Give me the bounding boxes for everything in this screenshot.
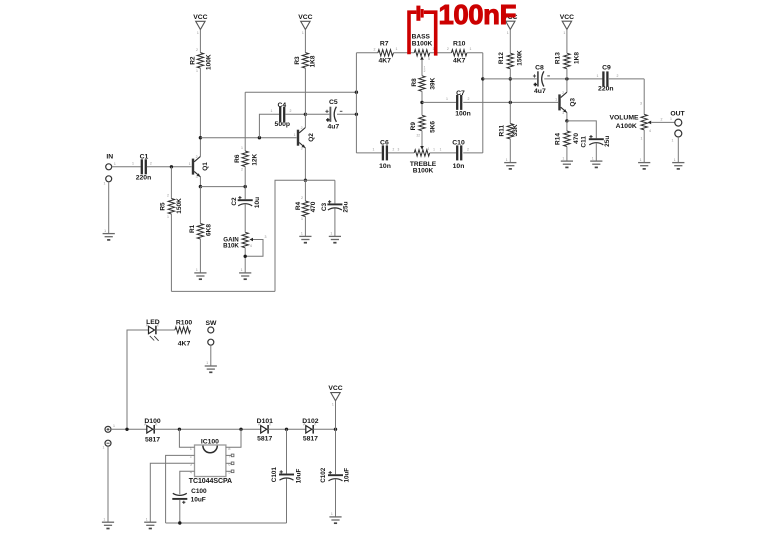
svg-text:2: 2: [447, 47, 449, 51]
svg-text:R2: R2: [189, 56, 196, 65]
svg-text:VCC: VCC: [193, 14, 207, 21]
svg-text:VOLUME: VOLUME: [609, 115, 639, 122]
svg-text:3: 3: [562, 111, 564, 115]
svg-text:4K7: 4K7: [378, 57, 391, 64]
svg-text:25u: 25u: [343, 201, 350, 212]
svg-text:C7: C7: [456, 90, 465, 97]
svg-text:1: 1: [641, 137, 643, 141]
svg-text:5K6: 5K6: [430, 121, 437, 133]
svg-text:220n: 220n: [598, 85, 614, 92]
svg-text:1: 1: [114, 162, 116, 166]
svg-text:C5: C5: [329, 99, 338, 106]
svg-text:4: 4: [250, 244, 252, 248]
svg-text:3: 3: [398, 147, 400, 151]
svg-text:R100: R100: [176, 319, 192, 326]
svg-text:2: 2: [661, 118, 663, 122]
svg-text:3: 3: [301, 146, 303, 150]
svg-text:100n: 100n: [455, 110, 471, 117]
svg-text:1: 1: [206, 361, 208, 365]
svg-text:10n: 10n: [379, 163, 391, 170]
svg-text:33K: 33K: [512, 124, 519, 136]
svg-text:150K: 150K: [176, 198, 183, 214]
svg-text:SW: SW: [206, 320, 218, 327]
svg-text:B10K: B10K: [223, 243, 239, 250]
svg-text:1: 1: [241, 146, 243, 150]
svg-text:3: 3: [265, 235, 267, 239]
svg-text:220n: 220n: [136, 174, 152, 181]
svg-text:1: 1: [433, 147, 435, 151]
svg-text:100K: 100K: [206, 54, 213, 70]
svg-text:1: 1: [294, 133, 296, 137]
svg-text:2: 2: [393, 147, 395, 151]
svg-text:C4: C4: [277, 102, 286, 109]
svg-text:1: 1: [104, 229, 106, 233]
svg-text:LED: LED: [146, 319, 160, 326]
svg-text:1: 1: [146, 517, 148, 521]
svg-text:2: 2: [374, 48, 376, 52]
svg-text:1: 1: [555, 98, 557, 102]
svg-text:2: 2: [290, 109, 292, 113]
svg-text:1: 1: [103, 446, 105, 450]
svg-text:1: 1: [189, 162, 191, 166]
svg-text:VCC: VCC: [328, 385, 342, 392]
svg-text:2: 2: [241, 168, 243, 172]
svg-text:2: 2: [196, 155, 198, 159]
svg-text:C100: C100: [191, 488, 207, 495]
svg-text:22: 22: [417, 134, 421, 138]
svg-text:1: 1: [674, 158, 676, 162]
svg-text:470: 470: [573, 133, 580, 144]
svg-text:VCC: VCC: [560, 14, 574, 21]
svg-text:R10: R10: [453, 41, 466, 48]
svg-text:C1: C1: [140, 154, 149, 161]
svg-text:B100K: B100K: [412, 41, 433, 48]
svg-text:10uF: 10uF: [191, 496, 206, 503]
svg-text:1: 1: [196, 268, 198, 272]
svg-text:C9: C9: [602, 65, 611, 72]
svg-text:R6: R6: [234, 154, 241, 163]
svg-text:R13: R13: [555, 52, 562, 64]
svg-text:4u7: 4u7: [327, 123, 339, 130]
svg-text:R11: R11: [498, 125, 505, 137]
svg-text:C2: C2: [231, 197, 238, 206]
svg-text:1: 1: [330, 232, 332, 236]
svg-text:VCC: VCC: [298, 14, 312, 21]
svg-text:C10: C10: [452, 139, 465, 146]
svg-text:D100: D100: [144, 418, 160, 425]
svg-text:2: 2: [301, 196, 303, 200]
svg-text:C102: C102: [320, 467, 327, 483]
svg-text:10uF: 10uF: [344, 468, 351, 483]
svg-text:12K: 12K: [252, 153, 259, 165]
svg-text:IC100: IC100: [201, 438, 219, 445]
svg-text:OUT: OUT: [670, 111, 685, 118]
svg-text:R7: R7: [380, 41, 389, 48]
svg-text:150K: 150K: [517, 50, 524, 66]
svg-text:1: 1: [301, 232, 303, 236]
svg-text:2: 2: [424, 69, 426, 73]
svg-text:1: 1: [506, 158, 508, 162]
svg-text:D101: D101: [257, 418, 273, 425]
svg-text:1: 1: [104, 181, 106, 185]
svg-text:4u7: 4u7: [534, 88, 546, 95]
svg-text:100nF: 100nF: [439, 0, 516, 30]
svg-text:C6: C6: [380, 139, 389, 146]
svg-text:500p: 500p: [275, 121, 291, 128]
svg-text:2: 2: [467, 147, 469, 151]
svg-text:2: 2: [167, 194, 169, 198]
svg-text:1: 1: [241, 268, 243, 272]
svg-text:1: 1: [672, 139, 674, 143]
svg-text:2: 2: [196, 48, 198, 52]
svg-text:1: 1: [396, 47, 398, 51]
svg-text:R4: R4: [295, 201, 302, 210]
svg-text:1: 1: [446, 97, 448, 101]
svg-text:470: 470: [310, 201, 317, 212]
svg-text:2: 2: [617, 74, 619, 78]
svg-text:1: 1: [167, 215, 169, 219]
svg-text:2: 2: [468, 97, 470, 101]
svg-text:1: 1: [470, 47, 472, 51]
svg-text:B100K: B100K: [413, 168, 434, 175]
svg-text:6K8: 6K8: [205, 224, 212, 236]
svg-text:C11: C11: [581, 136, 588, 148]
svg-text:1: 1: [197, 31, 199, 35]
svg-text:1: 1: [301, 217, 303, 221]
svg-text:TC1044SCPA: TC1044SCPA: [189, 478, 232, 485]
svg-text:5817: 5817: [303, 436, 318, 443]
svg-text:C101: C101: [271, 467, 278, 483]
svg-text:25u: 25u: [604, 136, 611, 147]
svg-text:Q1: Q1: [202, 162, 209, 171]
svg-text:10n: 10n: [453, 163, 465, 170]
svg-text:2: 2: [562, 91, 564, 95]
svg-text:4K7: 4K7: [178, 340, 191, 347]
svg-text:39K: 39K: [430, 77, 437, 89]
svg-text:1: 1: [103, 517, 105, 521]
svg-text:1: 1: [132, 162, 134, 166]
svg-text:1: 1: [563, 31, 565, 35]
svg-text:10u: 10u: [254, 197, 261, 208]
svg-text:R8: R8: [411, 78, 418, 87]
svg-text:1: 1: [507, 31, 509, 35]
svg-text:R1: R1: [189, 224, 196, 233]
svg-text:1K8: 1K8: [310, 55, 317, 67]
svg-text:R12: R12: [498, 52, 505, 64]
svg-text:1K8: 1K8: [574, 52, 581, 64]
svg-text:1: 1: [440, 147, 442, 151]
svg-text:5817: 5817: [257, 436, 272, 443]
svg-text:2: 2: [150, 162, 152, 166]
svg-text:4: 4: [649, 129, 651, 133]
svg-text:C8: C8: [535, 65, 544, 72]
svg-text:1: 1: [302, 31, 304, 35]
svg-text:R5: R5: [160, 202, 167, 211]
svg-text:4: 4: [428, 57, 430, 61]
svg-text:Q3: Q3: [569, 98, 576, 107]
svg-text:R9: R9: [410, 122, 417, 131]
svg-text:1: 1: [592, 156, 594, 160]
svg-text:1: 1: [597, 74, 599, 78]
svg-text:IN: IN: [106, 154, 113, 161]
svg-text:D102: D102: [302, 418, 318, 425]
svg-text:4: 4: [427, 147, 429, 151]
svg-text:1: 1: [331, 512, 333, 516]
svg-text:Q2: Q2: [308, 133, 315, 142]
svg-text:1: 1: [196, 69, 198, 73]
svg-text:1: 1: [332, 402, 334, 406]
svg-text:R14: R14: [554, 133, 561, 145]
svg-text:3: 3: [640, 102, 642, 106]
svg-text:5817: 5817: [145, 436, 160, 443]
svg-text:1: 1: [562, 156, 564, 160]
svg-text:4K7: 4K7: [453, 57, 466, 64]
svg-text:1: 1: [271, 109, 273, 113]
svg-text:1: 1: [113, 424, 115, 428]
svg-text:1: 1: [640, 158, 642, 162]
svg-text:1: 1: [373, 148, 375, 152]
svg-text:3: 3: [196, 175, 198, 179]
svg-text:C3: C3: [321, 202, 328, 211]
svg-text:10uF: 10uF: [296, 469, 303, 484]
svg-text:2: 2: [301, 126, 303, 130]
svg-text:A100K: A100K: [616, 123, 637, 130]
svg-text:BASS: BASS: [412, 33, 431, 40]
svg-text:R3: R3: [294, 56, 301, 65]
